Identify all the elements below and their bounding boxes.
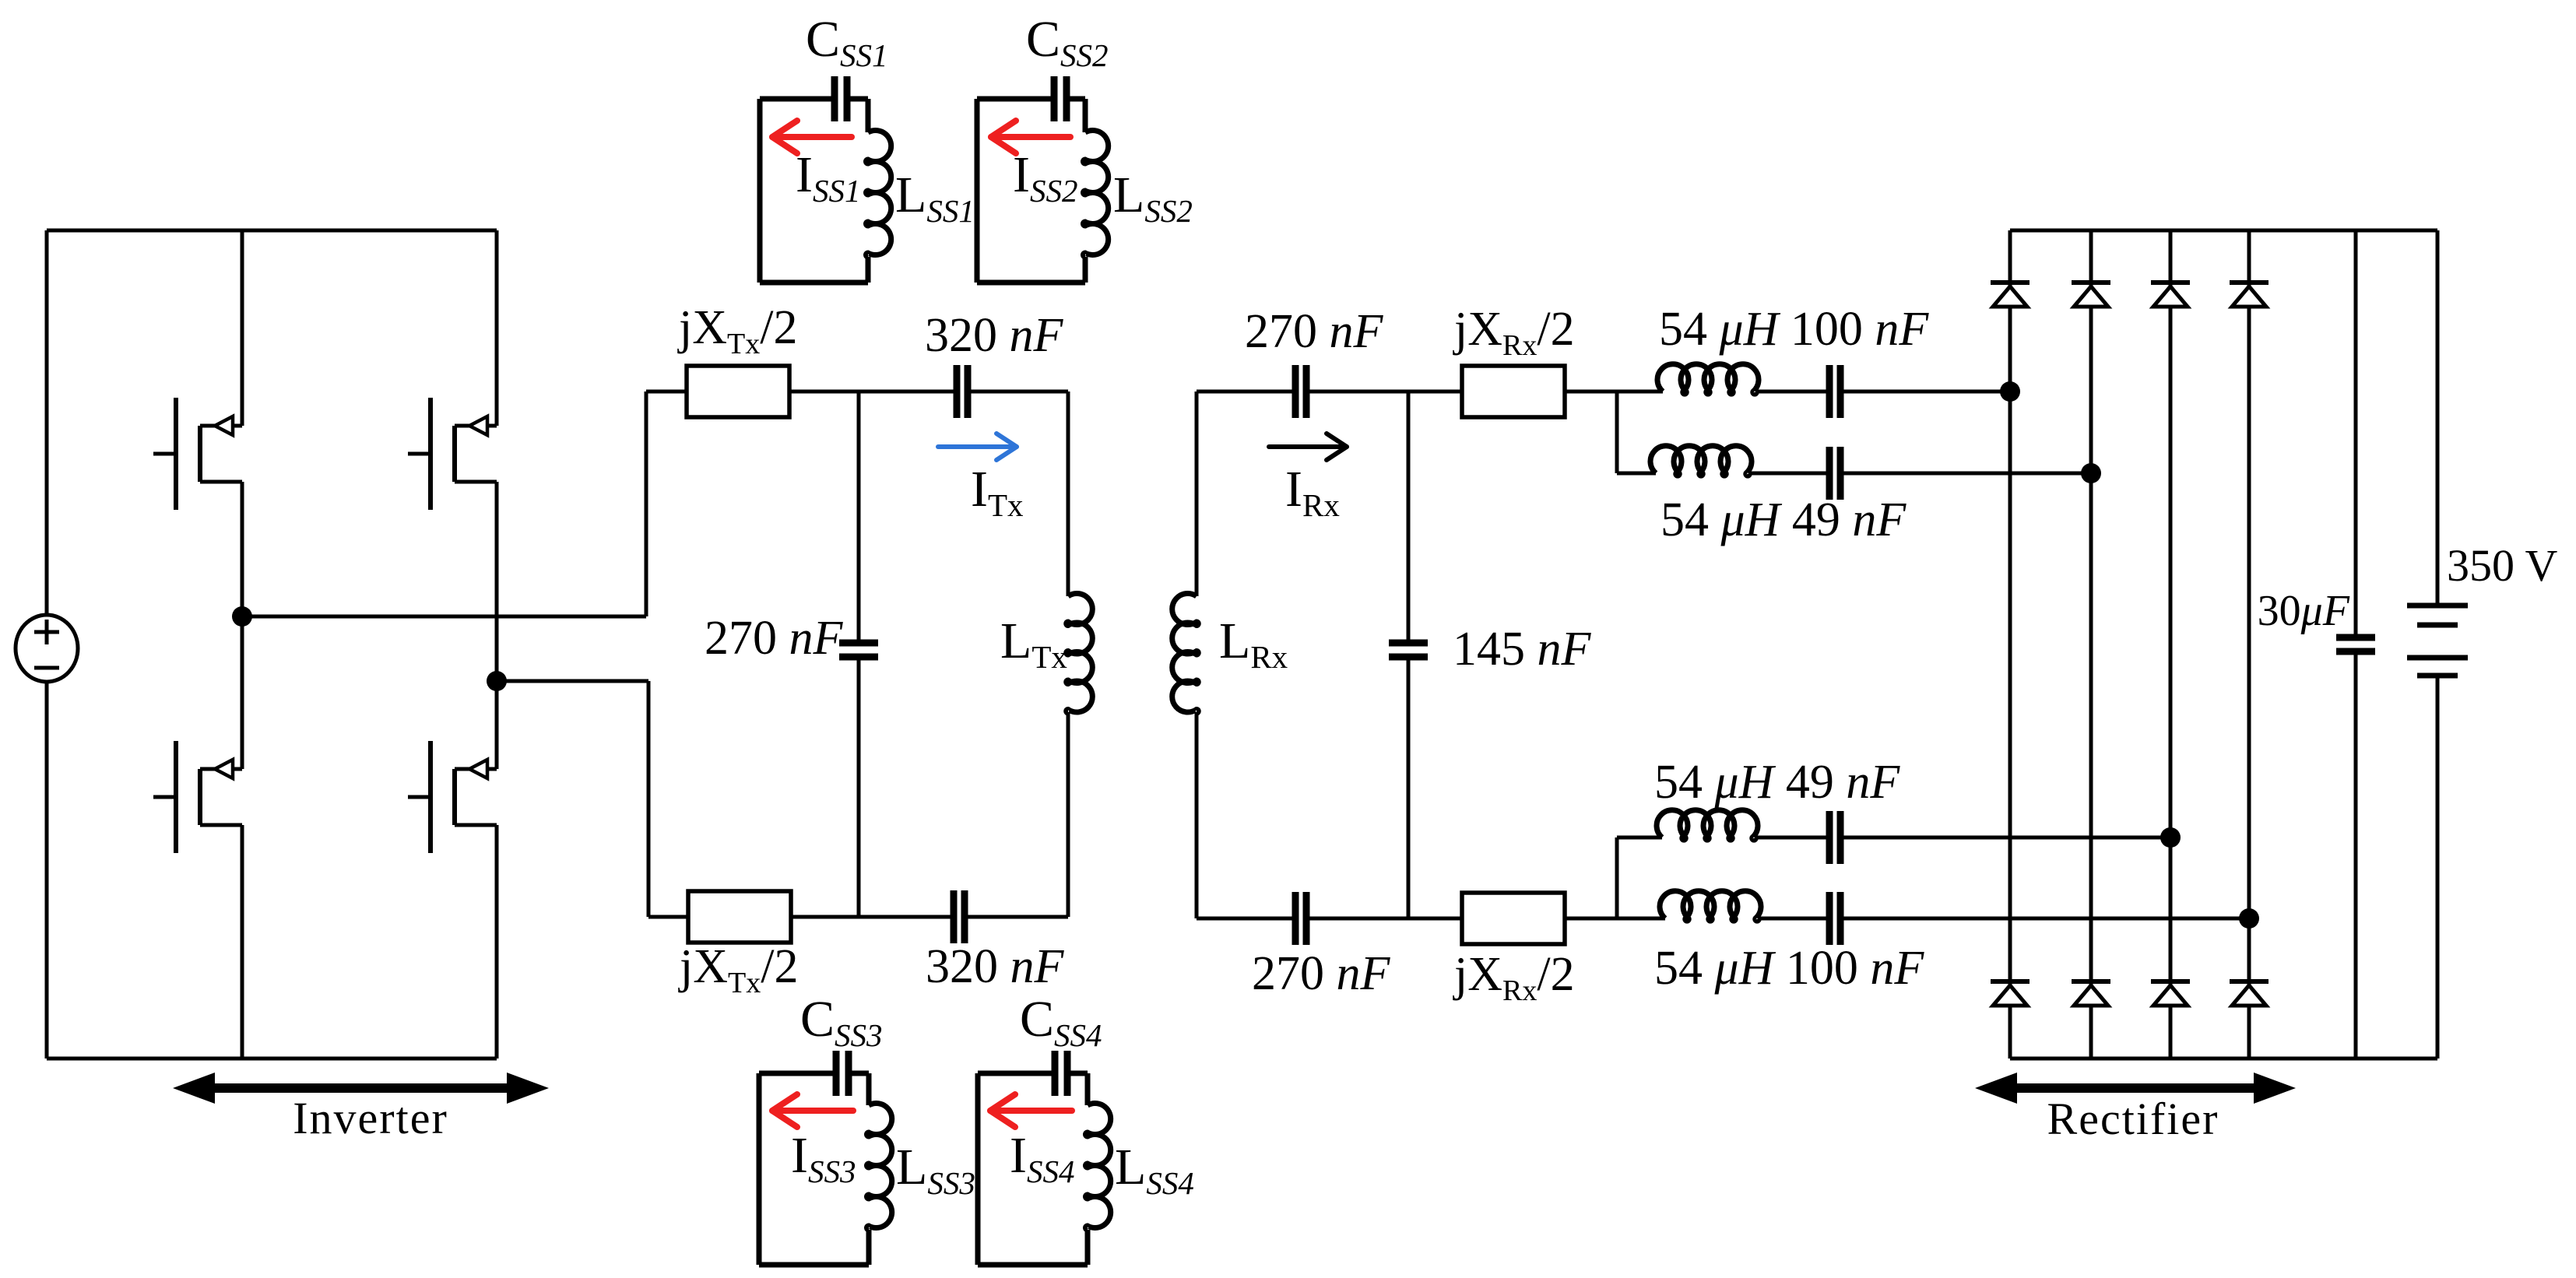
svg-text:270 nF: 270 nF <box>1245 305 1384 358</box>
svg-text:320 nF: 320 nF <box>925 309 1064 362</box>
svg-text:54 μH 100 nF: 54 μH 100 nF <box>1654 942 1924 995</box>
svg-text:54 μH 100 nF: 54 μH 100 nF <box>1659 303 1929 356</box>
svg-text:Rectifier: Rectifier <box>2047 1094 2219 1144</box>
svg-text:320 nF: 320 nF <box>926 940 1065 993</box>
svg-text:270 nF: 270 nF <box>1252 947 1391 1000</box>
svg-text:54 μH 49 nF: 54 μH 49 nF <box>1654 756 1900 809</box>
svg-text:Inverter: Inverter <box>293 1093 448 1143</box>
svg-text:145 nF: 145 nF <box>1453 623 1592 676</box>
svg-text:350 V: 350 V <box>2447 540 2557 591</box>
svg-text:30μF: 30μF <box>2258 587 2350 635</box>
svg-text:54 μH 49 nF: 54 μH 49 nF <box>1661 493 1907 546</box>
svg-text:270 nF: 270 nF <box>705 612 844 665</box>
